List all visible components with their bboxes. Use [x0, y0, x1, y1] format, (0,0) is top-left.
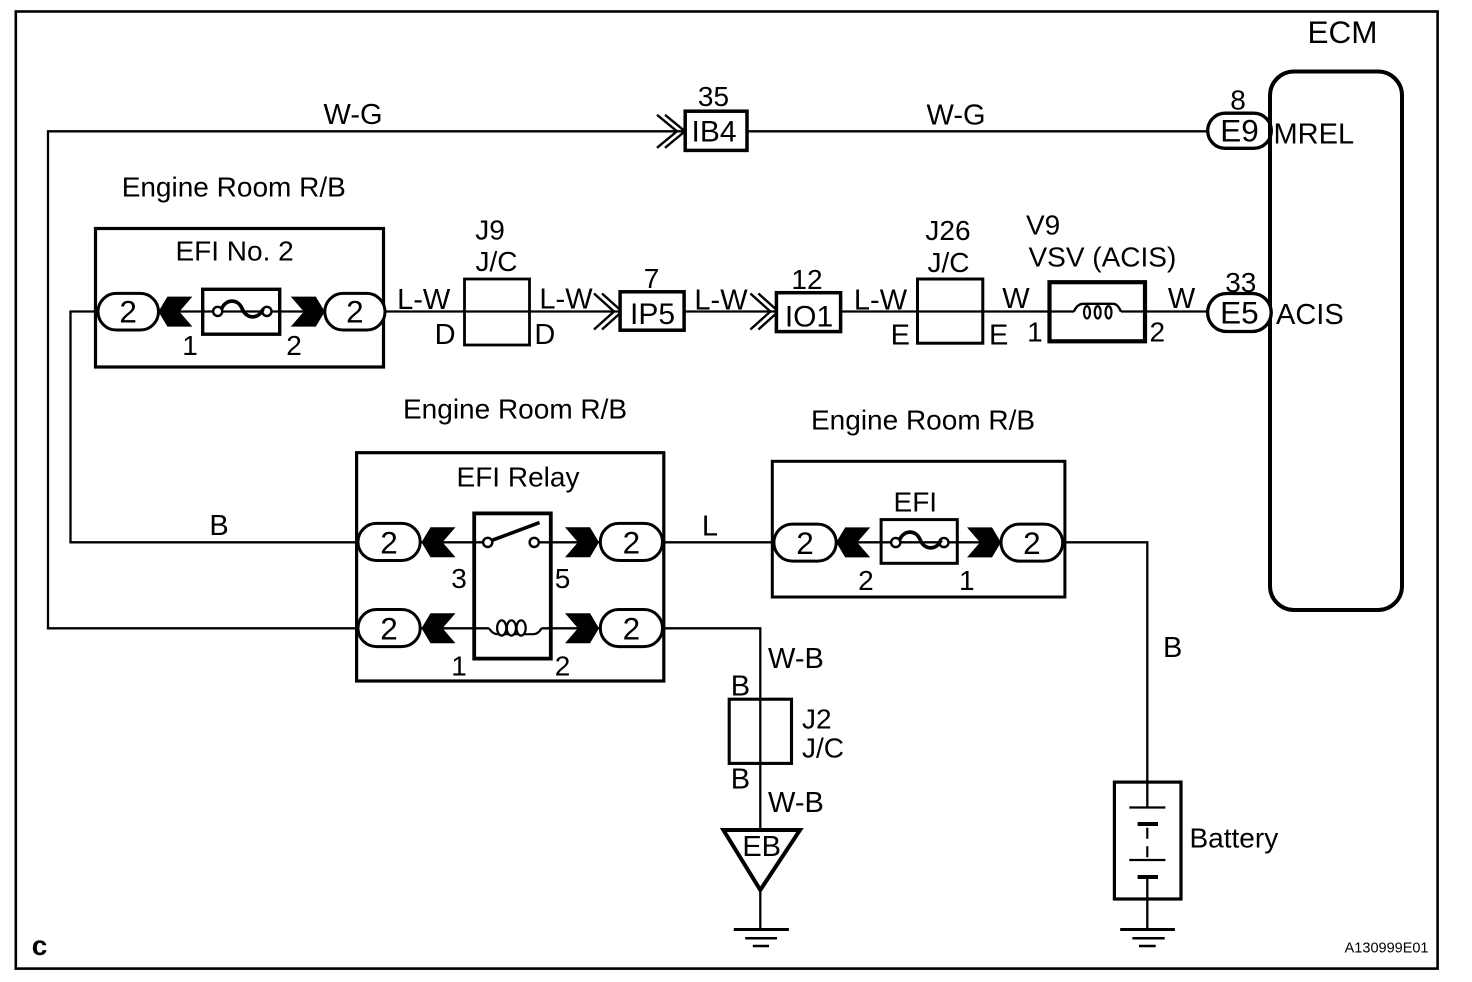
svg-text:c: c — [32, 930, 48, 961]
connector oval E5 — [1208, 294, 1272, 332]
svg-text:12: 12 — [791, 264, 822, 295]
relay inner box — [474, 513, 551, 658]
svg-text:B: B — [1163, 632, 1182, 664]
svg-text:1: 1 — [182, 330, 198, 361]
svg-text:W-G: W-G — [926, 100, 985, 132]
coil V9 — [1074, 304, 1121, 312]
svg-text:ACIS: ACIS — [1276, 299, 1344, 331]
svg-text:2: 2 — [1023, 525, 1041, 561]
svg-text:IP5: IP5 — [630, 298, 675, 331]
svg-text:2: 2 — [286, 330, 302, 361]
svg-text:1: 1 — [451, 651, 467, 682]
svg-text:E5: E5 — [1220, 295, 1259, 331]
connector oval 2 right of fuse EFI — [1001, 524, 1063, 561]
ECM block — [1270, 72, 1402, 611]
svg-text:3: 3 — [451, 563, 467, 594]
ground EB triangle — [723, 830, 800, 890]
junction J2 — [729, 699, 791, 763]
svg-text:2: 2 — [1150, 316, 1166, 347]
svg-text:MREL: MREL — [1274, 118, 1355, 150]
svg-text:35: 35 — [698, 81, 729, 112]
svg-text:J/C: J/C — [802, 733, 844, 764]
svg-text:2: 2 — [623, 524, 641, 560]
arrow right EFI — [967, 527, 1001, 557]
svg-text:2: 2 — [555, 651, 571, 682]
ground symbol EB — [734, 928, 789, 931]
svg-text:J26: J26 — [925, 215, 970, 246]
svg-text:IO1: IO1 — [785, 301, 833, 334]
relay switch — [483, 538, 492, 547]
Engine Room R/B box 2 (EFI Relay) — [357, 453, 664, 681]
svg-text:W-B: W-B — [768, 787, 824, 819]
chevrons before IP5 — [594, 294, 622, 330]
chevrons before IO1 — [750, 294, 778, 330]
svg-text:B: B — [731, 670, 750, 702]
chevrons before IB4 — [657, 115, 685, 148]
connector oval 2 right of fuse EFI No.2 — [325, 293, 385, 330]
wire relay coil row to J2 and EB ground — [542, 628, 761, 830]
svg-text:EFI Relay: EFI Relay — [457, 461, 580, 492]
svg-text:J2: J2 — [802, 703, 832, 734]
svg-text:2: 2 — [623, 610, 641, 646]
svg-text:8: 8 — [1230, 85, 1246, 116]
svg-text:Engine Room R/B: Engine Room R/B — [403, 394, 627, 425]
svg-text:1: 1 — [1027, 316, 1043, 347]
svg-text:W-B: W-B — [768, 643, 824, 675]
wire from relay switch to EFI fuse to battery — [538, 542, 1147, 782]
svg-text:EB: EB — [742, 831, 781, 863]
svg-text:J9: J9 — [475, 215, 505, 246]
svg-text:L-W: L-W — [694, 285, 748, 317]
svg-text:7: 7 — [644, 263, 660, 294]
junction J9 — [465, 279, 530, 345]
relay arrow bottom-left — [422, 613, 456, 643]
wire W-G from IB4 to E9 — [747, 130, 1208, 132]
svg-text:E: E — [891, 319, 910, 351]
svg-text:5: 5 — [555, 563, 571, 594]
svg-text:L: L — [702, 511, 718, 543]
svg-text:E9: E9 — [1220, 113, 1259, 149]
connector oval E9 — [1208, 113, 1272, 148]
svg-text:EFI: EFI — [894, 487, 938, 518]
connector IO1 — [776, 293, 840, 332]
connector IB4 — [685, 111, 747, 150]
svg-text:L-W: L-W — [539, 284, 593, 316]
svg-text:ECM: ECM — [1308, 14, 1378, 50]
svg-text:J/C: J/C — [476, 246, 518, 277]
battery internals — [1146, 782, 1148, 807]
connector oval 2 left of fuse EFI No.2 — [98, 293, 159, 330]
junction J26 — [918, 279, 983, 343]
fuse EFI No.2 — [203, 289, 280, 334]
relay arrow top-right — [565, 527, 599, 557]
relay coil — [489, 628, 542, 634]
svg-text:33: 33 — [1225, 267, 1256, 298]
arrow left EFI No.2 — [158, 297, 192, 327]
svg-text:Engine Room R/B: Engine Room R/B — [811, 405, 1035, 436]
relay oval 2 bottom-left — [358, 610, 420, 647]
svg-text:W-G: W-G — [323, 99, 382, 131]
relay arrow bottom-right — [565, 613, 599, 643]
connector IP5 — [620, 292, 684, 330]
svg-text:W: W — [1002, 283, 1030, 315]
VSV (ACIS) solenoid valve V9 — [1050, 282, 1146, 341]
arrow right EFI No.2 — [291, 297, 325, 327]
svg-text:Engine Room R/B: Engine Room R/B — [122, 171, 346, 202]
svg-text:D: D — [534, 319, 555, 351]
Engine Room R/B box 3 (EFI fuse) — [772, 461, 1065, 597]
relay arrow top-left — [422, 527, 456, 557]
svg-text:2: 2 — [119, 294, 137, 330]
ground symbol battery — [1120, 928, 1175, 931]
wire B from EFI No.2 down to relay switch row — [71, 312, 485, 543]
wire EB to ground — [759, 890, 761, 928]
relay oval 2 top-left — [358, 523, 420, 560]
svg-text:W: W — [1168, 283, 1196, 315]
svg-text:B: B — [731, 764, 750, 796]
relay oval 2 bottom-right — [600, 610, 662, 647]
svg-text:A130999E01: A130999E01 — [1345, 940, 1429, 956]
svg-text:V9: V9 — [1026, 210, 1060, 241]
svg-text:2: 2 — [380, 524, 398, 560]
svg-text:L-W: L-W — [854, 285, 908, 317]
svg-text:2: 2 — [380, 610, 398, 646]
svg-text:2: 2 — [858, 565, 874, 596]
svg-text:D: D — [435, 319, 456, 351]
fuse EFI — [881, 520, 957, 564]
battery — [1114, 782, 1181, 899]
svg-text:IB4: IB4 — [691, 116, 736, 149]
wire W-G from left down to relay coil row — [48, 131, 685, 628]
svg-text:1: 1 — [959, 565, 975, 596]
wire L-W row through fuse, J9, IP5, IO1, J26 to VSV — [98, 310, 1074, 312]
svg-text:2: 2 — [346, 294, 364, 330]
svg-text:2: 2 — [796, 525, 814, 561]
wire W from VSV to E5 — [1121, 310, 1208, 312]
svg-text:J/C: J/C — [928, 247, 970, 278]
relay oval 2 top-right — [600, 523, 662, 560]
svg-text:VSV (ACIS): VSV (ACIS) — [1029, 241, 1177, 272]
svg-text:E: E — [989, 319, 1008, 351]
svg-text:B: B — [209, 510, 228, 542]
svg-text:Battery: Battery — [1190, 823, 1279, 854]
svg-text:EFI No. 2: EFI No. 2 — [175, 236, 293, 267]
wire coil row inside relay — [420, 627, 489, 629]
connector oval 2 left of fuse EFI — [774, 524, 836, 561]
Engine Room R/B box 1 (EFI No. 2) — [96, 229, 384, 368]
arrow left EFI — [836, 527, 870, 557]
svg-text:L-W: L-W — [397, 284, 451, 316]
